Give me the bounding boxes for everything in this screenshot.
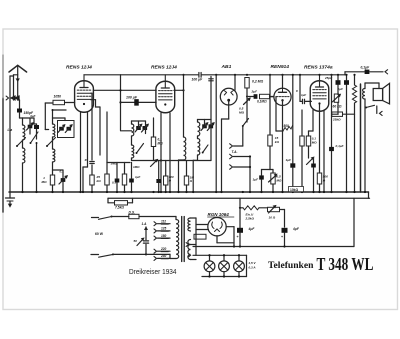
svg-text:4μF: 4μF (292, 227, 300, 231)
svg-text:+: + (237, 235, 239, 239)
svg-text:0,1MΩ: 0,1MΩ (257, 99, 267, 103)
svg-text:50: 50 (134, 239, 138, 243)
svg-text:0,1μF: 0,1μF (336, 144, 344, 148)
svg-text:4μF: 4μF (248, 227, 256, 231)
svg-text:10 Ω: 10 Ω (269, 216, 276, 220)
svg-text:REN914: REN914 (271, 64, 290, 70)
svg-text:0,1: 0,1 (112, 181, 116, 185)
svg-text:kΩ: kΩ (97, 179, 102, 183)
svg-text:10kΩ: 10kΩ (290, 188, 299, 192)
svg-text:60 W: 60 W (95, 232, 104, 236)
svg-text:RENS 12J4: RENS 12J4 (151, 65, 177, 71)
svg-text:MΩ: MΩ (239, 111, 245, 115)
svg-text:220: 220 (160, 247, 167, 251)
svg-text:T 348 WL: T 348 WL (317, 254, 374, 274)
svg-text:MΩ: MΩ (277, 179, 282, 183)
svg-text:7,5kΩ: 7,5kΩ (115, 206, 124, 210)
svg-text:125: 125 (161, 227, 167, 231)
svg-text:25kΩ: 25kΩ (332, 118, 341, 122)
svg-text:L.a: L.a (8, 128, 13, 132)
svg-text:T.A.: T.A. (232, 150, 238, 154)
svg-text:RENS 12J4: RENS 12J4 (66, 65, 92, 71)
svg-text:2,5kΩ: 2,5kΩ (245, 217, 255, 221)
svg-text:MΩ: MΩ (312, 141, 317, 145)
svg-text:AB1: AB1 (221, 64, 232, 70)
svg-text:1μF: 1μF (135, 175, 140, 179)
svg-text:100 μF: 100 μF (192, 78, 204, 82)
svg-text:1MΩ: 1MΩ (133, 165, 140, 169)
svg-text:MΩ: MΩ (158, 142, 164, 146)
svg-text:0,3 A: 0,3 A (249, 265, 256, 269)
svg-text:112: 112 (161, 220, 166, 224)
svg-text:Telefunken: Telefunken (268, 260, 314, 271)
svg-text:100 μF: 100 μF (126, 95, 138, 99)
svg-text:RENS 1374a: RENS 1374a (304, 65, 333, 71)
svg-text:+: + (281, 235, 283, 239)
svg-text:1050: 1050 (54, 95, 62, 99)
svg-text:kΩ: kΩ (275, 140, 280, 144)
svg-text:RGN 1064: RGN 1064 (208, 212, 230, 217)
svg-text:1μF: 1μF (253, 178, 259, 182)
svg-text:Dreikreiser 1934: Dreikreiser 1934 (129, 267, 177, 276)
svg-text:0,1μF: 0,1μF (361, 66, 371, 70)
svg-text:240: 240 (160, 254, 167, 258)
svg-text:0,2 MΩ: 0,2 MΩ (252, 80, 263, 84)
svg-text:150: 150 (161, 234, 167, 238)
svg-text:60 kΩ: 60 kΩ (333, 105, 342, 109)
svg-text:Ω: Ω (322, 179, 326, 183)
svg-text:MΩ: MΩ (42, 180, 48, 184)
svg-text:2μF: 2μF (251, 90, 258, 94)
svg-text:1.A: 1.A (142, 222, 148, 226)
svg-text:1μF: 1μF (286, 158, 292, 162)
svg-text:1μF: 1μF (301, 93, 306, 97)
